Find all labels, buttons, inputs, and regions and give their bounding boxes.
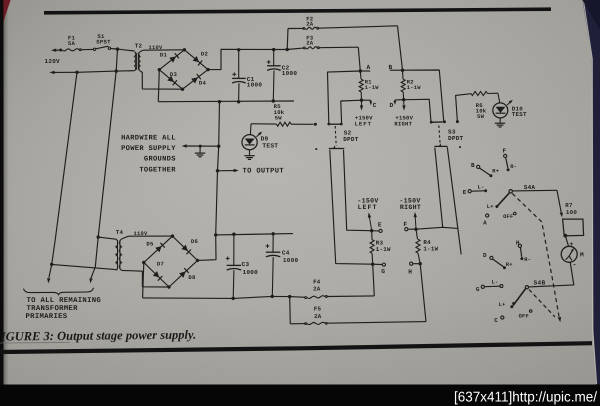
contact G to L- (476, 280, 503, 293)
junction hardwire tap (217, 145, 220, 148)
junction C2 top (272, 48, 275, 51)
junction C3 top (232, 233, 235, 236)
label -150V RIGHT (399, 197, 421, 211)
switch S2 upper bar (327, 123, 342, 126)
svg-text:D4: D4 (199, 80, 207, 87)
node E (370, 222, 382, 233)
resistor R3 (370, 231, 374, 265)
capacitor C4 (266, 234, 281, 297)
svg-text:DPDT: DPDT (448, 135, 464, 142)
wire: down-line to T4 primary (right) (89, 71, 116, 283)
label L+ upper (487, 204, 494, 210)
svg-text:C: C (373, 102, 377, 109)
contact B to R+ (471, 162, 499, 177)
junction bridge1 bottom (181, 88, 184, 91)
label D8 (188, 274, 196, 281)
svg-text:1-1W: 1-1W (365, 85, 379, 91)
junction bridge2 top (171, 234, 174, 237)
contact C (494, 316, 504, 324)
svg-text:R7: R7 (565, 202, 573, 209)
junction ground stub (199, 145, 202, 148)
svg-text:2A: 2A (314, 313, 322, 320)
label F5 value (314, 305, 322, 319)
contact tick S2 (315, 148, 317, 150)
wire: down-line to other primaries (left) (47, 72, 77, 283)
junction lower rail join (214, 233, 217, 236)
wire: T4 secondary bottom to bridge2 AC2 (122, 270, 169, 287)
wire: S2 lower-right to node E (344, 150, 372, 231)
svg-text:OFF: OFF (519, 313, 529, 319)
contact A (483, 214, 489, 227)
label S4A (524, 184, 536, 191)
svg-text:R-: R- (510, 164, 517, 170)
wire: bridge2 DC- drop (143, 263, 144, 298)
svg-text:F4: F4 (313, 278, 321, 285)
annotation brace (24, 288, 94, 295)
node G (371, 263, 386, 276)
diode D6 (181, 245, 191, 255)
junction R7 output (563, 234, 567, 238)
label C1 value (247, 76, 263, 89)
svg-text:S4B: S4B (534, 280, 546, 287)
wire: bridge1 DC+ to top rail (208, 49, 287, 69)
junction C4 bottom (271, 295, 274, 298)
contact: R6 to S3 pole (456, 120, 459, 123)
svg-text:5W: 5W (275, 114, 283, 121)
wire: S1 junction down to 120V neutral bus (116, 49, 117, 71)
label D9 TEST (261, 136, 279, 150)
wire: F5 to node H (420, 264, 426, 322)
svg-text:LEFT: LEFT (358, 204, 378, 211)
junction bridge1 top (183, 48, 186, 51)
label D6 (191, 238, 199, 245)
annotation +150V LEFT arrow (360, 100, 363, 110)
svg-text:RIGHT: RIGHT (394, 121, 412, 128)
contact OFF upper (503, 212, 516, 220)
label +150V RIGHT (394, 114, 413, 127)
svg-text:TOGETHER: TOGETHER (139, 166, 176, 174)
junction C3 bottom (232, 297, 235, 300)
label +150V LEFT (355, 114, 374, 127)
junction bridge2 bottom (167, 285, 170, 288)
svg-text:E: E (463, 189, 467, 196)
meter M (561, 246, 577, 262)
contact E to L- (463, 185, 487, 196)
label C3 value (242, 261, 259, 276)
label S3 DPDT (448, 129, 464, 143)
junction DC+ rail at fuse branch (286, 48, 289, 51)
junction at S1 output (116, 47, 119, 50)
wire: F2 to node B (398, 26, 403, 70)
junction 120V bus right (115, 69, 118, 72)
label -150V LEFT (357, 197, 378, 211)
wire: DC+ rail bottom supply (216, 234, 293, 235)
wire: T4 secondary top to bridge2 AC1 (122, 236, 173, 239)
label meter plus (569, 241, 573, 248)
label T4 (116, 229, 124, 236)
svg-text:1000: 1000 (247, 82, 263, 89)
svg-text:R-: R- (524, 257, 531, 263)
wire: S2 lower-left to node G (330, 150, 373, 264)
svg-text:TO OUTPUT: TO OUTPUT (243, 168, 285, 176)
svg-text:5W: 5W (477, 113, 485, 120)
label T2 110V (149, 45, 163, 51)
svg-text:D7: D7 (157, 260, 164, 267)
label D1 (160, 52, 168, 59)
wire: R7 to meter + (565, 236, 568, 246)
wire: S3 lower-right long drop (447, 147, 461, 254)
svg-text:C: C (494, 317, 498, 324)
switch S3 lower bar (434, 143, 447, 147)
svg-text:FIGURE 3: Output stage power s: FIGURE 3: Output stage power supply. (0, 328, 196, 344)
junction C2 bottom (272, 99, 275, 102)
label R2 value (407, 80, 421, 92)
junction bridge2 left (142, 261, 145, 264)
fuse F1 (60, 49, 93, 51)
node C junction (360, 99, 363, 102)
capacitor C3 (226, 234, 241, 298)
node B (389, 64, 405, 72)
label S2 DPDT (343, 129, 359, 143)
svg-text:100: 100 (566, 209, 577, 216)
svg-text:OFF: OFF (503, 214, 513, 220)
switch S4A (495, 190, 512, 208)
node F (403, 221, 417, 231)
fuse F3 (287, 47, 358, 50)
label TO OUTPUT (243, 168, 285, 176)
contact tick S3 (459, 146, 461, 148)
switch linkage S4B aux (529, 290, 555, 318)
svg-text:M: M (580, 252, 584, 259)
svg-text:B: B (389, 64, 393, 71)
wire: T4 primary bottom crossing (52, 264, 116, 269)
wire: 120V neutral feed with arrow (49, 71, 134, 74)
label F1 value (68, 35, 76, 47)
node D junction (402, 98, 405, 101)
net 120V label (45, 58, 61, 65)
wire: bridge2 DC+ to rail (198, 235, 217, 261)
svg-text:C4: C4 (282, 250, 290, 257)
svg-text:D: D (483, 252, 487, 259)
node D marker (390, 100, 404, 109)
resistor R1 (359, 71, 363, 100)
label L+ lower (499, 302, 506, 308)
switch S4B (510, 286, 528, 309)
svg-text:PRIMARIES: PRIMARIES (26, 313, 68, 321)
svg-text:R+: R+ (492, 169, 499, 175)
diode D8 (179, 268, 189, 278)
junction DC- bus at drop (218, 100, 221, 103)
transformer T2 (135, 52, 140, 71)
svg-text:TRANSFORMER: TRANSFORMER (27, 305, 79, 313)
annotation -150V LEFT arrow (368, 212, 372, 230)
svg-text:2A: 2A (306, 39, 314, 46)
svg-text:T4: T4 (116, 229, 124, 236)
wire: DC- bus to R5 (218, 102, 221, 147)
capacitor C2 (267, 50, 281, 101)
wire: DC- drop continues (218, 146, 219, 171)
annotation -150V RIGHT arrow (414, 212, 417, 229)
svg-text:R+: R+ (506, 262, 513, 268)
svg-text:L+: L+ (499, 302, 506, 308)
wire: S3 pole to R6 (456, 94, 471, 122)
svg-text:F: F (403, 221, 407, 228)
label meter M (580, 252, 584, 259)
svg-text:POWER SUPPLY: POWER SUPPLY (121, 145, 176, 153)
label S4B (534, 280, 546, 287)
wire: DC- bus top supply (158, 100, 294, 103)
label C2 value (282, 64, 298, 77)
ground hardwire (195, 146, 205, 157)
fuse F5 (290, 322, 426, 325)
diode D1 (169, 53, 179, 63)
diode D4 (191, 74, 201, 84)
junction C1 bottom (237, 100, 240, 103)
transformer T4 (116, 239, 122, 270)
wire: S3 bottom bus to node F (416, 227, 458, 229)
svg-text:LEFT: LEFT (355, 120, 372, 127)
svg-text:1000: 1000 (283, 257, 299, 264)
svg-text:D6: D6 (191, 238, 199, 245)
wire: S1 to T2 primary top (118, 49, 135, 51)
node C marker (362, 100, 377, 109)
diode D5 (155, 243, 165, 253)
wire: node C to S2 pole (341, 100, 362, 123)
junction F5 branch (288, 295, 291, 298)
label D3 (170, 71, 178, 78)
wire: node B to S3 pole (403, 70, 444, 122)
svg-text:L-: L- (478, 185, 485, 191)
wire: bridge1 frame (159, 50, 208, 89)
svg-text:D5: D5 (146, 241, 154, 248)
label D2 (201, 51, 209, 58)
svg-text:L-: L- (492, 280, 499, 286)
svg-text:TEST: TEST (512, 111, 527, 118)
annotation HARDWIRE text (121, 134, 176, 174)
svg-text:C3: C3 (242, 261, 250, 268)
svg-text:1000: 1000 (282, 70, 298, 77)
resistor R7 box (563, 219, 584, 236)
node A (359, 64, 371, 73)
svg-text:1-1W: 1-1W (423, 246, 438, 253)
led D9 (242, 124, 262, 150)
wire: 120V hot feed with arrow (51, 49, 62, 52)
label R6 value (476, 102, 487, 120)
led D10 (493, 93, 513, 118)
svg-text:B: B (471, 162, 475, 169)
svg-text:TO ALL REMAINING: TO ALL REMAINING (27, 297, 102, 305)
switch S3 linkage (439, 125, 440, 143)
label T2 (135, 43, 143, 50)
svg-text:T2: T2 (135, 43, 143, 50)
wire: riser to F2 (286, 29, 289, 50)
label F4 value (313, 278, 321, 292)
wire: bridge2 frame (144, 236, 198, 287)
junction bridge1 right (206, 68, 209, 71)
label D7 (157, 260, 164, 267)
wire: DC- drop to lower rail (216, 171, 218, 235)
wire: bridge1 DC- drop (158, 70, 159, 102)
svg-text:5A: 5A (68, 40, 76, 47)
fuse F2 (288, 26, 398, 30)
svg-text:GROUNDS: GROUNDS (144, 156, 176, 164)
wire: F3 to node A (358, 47, 360, 71)
wire: meter to S4B (529, 262, 574, 287)
svg-text:D8: D8 (188, 274, 196, 281)
svg-text:HARDWIRE ALL: HARDWIRE ALL (121, 134, 176, 142)
svg-text:D1: D1 (160, 52, 168, 59)
svg-text:TEST: TEST (262, 142, 278, 149)
label D4 (199, 80, 207, 87)
svg-text:D: D (390, 102, 394, 109)
svg-text:F: F (502, 148, 506, 155)
annotation +150V RIGHT arrow (402, 100, 405, 111)
label C4 value (282, 250, 299, 265)
label S1 SPST (96, 33, 111, 46)
svg-text:1-1W: 1-1W (407, 85, 421, 91)
wire: S3 lower-left drop (435, 148, 443, 228)
diode D3 (167, 76, 177, 86)
svg-text:2A: 2A (313, 286, 321, 293)
fuse F4 (305, 296, 375, 299)
resistor R4 (416, 229, 420, 264)
label D10 TEST (512, 105, 527, 118)
wire: S4A to R7 (512, 190, 563, 217)
svg-text:-: - (572, 262, 576, 270)
wire: T4 primary top (98, 237, 116, 239)
svg-text:SPST: SPST (96, 39, 111, 46)
resistor R6 (471, 92, 498, 96)
resistor R2 (401, 70, 405, 100)
label R3 value (376, 239, 391, 252)
junction bridge2 right (196, 259, 199, 262)
svg-text:L+: L+ (487, 204, 494, 210)
svg-text:1-1W: 1-1W (376, 246, 391, 253)
svg-text:D2: D2 (201, 51, 209, 58)
svg-text:A: A (367, 64, 371, 71)
wire: T2 secondary top to bridge AC1 (140, 50, 184, 52)
diode D7 (153, 271, 163, 281)
wire: F4 to node G (373, 264, 375, 296)
label R1 value (365, 80, 379, 92)
wire: hardwire arrow to ground stub (182, 144, 219, 147)
svg-text:E: E (378, 222, 382, 229)
svg-text:H: H (408, 268, 412, 275)
svg-text:[637x411]http://upic.me/: [637x411]http://upic.me/ (454, 389, 597, 405)
label D5 (146, 241, 154, 248)
svg-text:G: G (381, 268, 385, 275)
wire: F5 branch drop (289, 297, 292, 324)
svg-text:DPDT: DPDT (343, 136, 359, 143)
svg-text:1000: 1000 (243, 269, 259, 276)
label F3 value (306, 34, 314, 46)
label meter minus (572, 262, 576, 270)
svg-text:2A: 2A (306, 20, 314, 27)
svg-text:RIGHT: RIGHT (400, 204, 421, 211)
wire: node D to S3 pole (404, 99, 431, 122)
annotation TO ALL REMAINING text (26, 297, 102, 321)
switch linkage S4A-S4B (512, 193, 561, 322)
svg-text:G: G (476, 286, 480, 293)
resistor R5 (251, 122, 314, 126)
caption FIGURE 3 (0, 328, 196, 344)
ground below D10 (495, 118, 505, 127)
wire: node A to S2 pole (328, 71, 361, 124)
contact: R5 to S2 pole (314, 123, 317, 126)
switch S1 (93, 46, 117, 50)
capacitor C1 (232, 50, 246, 102)
label F2 value (306, 15, 314, 27)
svg-text:A: A (483, 219, 487, 226)
junction bridge1 left (158, 68, 161, 71)
label R7 value (565, 202, 577, 216)
label R5 value (274, 103, 285, 121)
node TO OUTPUT (216, 169, 239, 173)
contact OFF lower (519, 310, 532, 320)
svg-text:F5: F5 (314, 305, 322, 312)
contact F to R- (502, 148, 517, 172)
junction on left down-line (50, 263, 53, 266)
contact D to R+ (483, 252, 513, 269)
wire: T2 secondary bottom to bridge AC2 (140, 71, 183, 90)
node H (408, 262, 422, 275)
label R4 value (423, 239, 438, 253)
junction T4 primary top tap (97, 235, 100, 238)
wire: DC- bus bottom supply (143, 296, 306, 298)
svg-text:120V: 120V (45, 58, 61, 65)
diode D2 (193, 56, 203, 66)
contact H to R- (516, 239, 531, 263)
junction 120V bus left (75, 71, 78, 74)
switch S2 linkage (335, 126, 336, 146)
junction C1 top (237, 48, 240, 51)
ground below D9 (244, 150, 254, 160)
svg-text:D3: D3 (170, 71, 178, 78)
label T4 110V (134, 231, 148, 237)
junction C4 top (272, 232, 275, 235)
switch S2 lower bar (329, 145, 345, 149)
switch S3 upper bar (430, 120, 446, 123)
